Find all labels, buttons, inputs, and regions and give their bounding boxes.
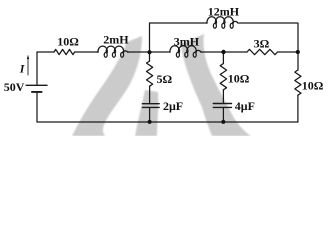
svg-text:2μF: 2μF [163, 99, 183, 113]
svg-text:10Ω: 10Ω [57, 35, 79, 49]
node D dot (bottom of branch1) [148, 120, 152, 124]
svg-text:2mH: 2mH [103, 32, 129, 46]
upper loop wires with 12mH [150, 23, 208, 52]
svg-text:5Ω: 5Ω [157, 72, 173, 86]
wire between 3mH and 3ohm [201, 51, 247, 53]
inductor L 2mH [98, 46, 107, 52]
branch 1: wire node A down to 5ohm [149, 52, 151, 61]
wire 10ohm to 4uF [222, 90, 224, 103]
svg-text:12mH: 12mH [208, 4, 240, 18]
right rail bottom [297, 95, 299, 122]
svg-text:10Ω: 10Ω [228, 72, 250, 86]
svg-text:4μF: 4μF [235, 99, 255, 113]
bottom wire [37, 121, 298, 123]
wire 2uF to bottom [149, 108, 151, 122]
svg-text:10Ω: 10Ω [302, 79, 324, 93]
resistor R 3ohm [247, 49, 278, 54]
watermark band right [181, 34, 251, 136]
wire top-left from corner to 10ohm [37, 51, 54, 53]
right rail top [297, 52, 299, 70]
wire 5ohm to 2uF [149, 86, 151, 103]
resistor R 10ohm right [295, 70, 301, 95]
node B dot [221, 50, 225, 54]
inductor L 12mH [207, 17, 217, 23]
left rail bottom [36, 92, 38, 122]
arrowhead of I [27, 55, 29, 59]
node C dot [296, 50, 300, 54]
svg-text:3mH: 3mH [174, 34, 200, 48]
resistor R 10ohm middle [220, 64, 226, 90]
svg-text:50V: 50V [4, 80, 25, 94]
watermark band left [72, 36, 142, 136]
capacitor C 4uF plates [213, 103, 231, 105]
resistor R 10ohm top-left [54, 49, 75, 54]
battery 50V long plate [26, 84, 47, 86]
current arrow I [27, 58, 29, 75]
capacitor C 2uF plates [142, 103, 159, 105]
svg-text:3Ω: 3Ω [254, 37, 270, 51]
watermark band middle [135, 90, 158, 136]
battery 50V short plate [32, 91, 42, 93]
inductor L 3mH [170, 46, 180, 52]
wire 4uF to bottom [222, 108, 224, 122]
resistor R 5ohm [147, 61, 153, 86]
wire between 2mH and node A [128, 51, 170, 53]
node A dot [147, 50, 151, 54]
branch 2: wire down to 10ohm mid [222, 52, 224, 64]
node E dot (bottom of branch2) [221, 120, 225, 124]
left rail top [36, 52, 38, 85]
wire 3ohm to right node [278, 51, 298, 53]
wire between 10ohm and 2mH [75, 51, 98, 53]
